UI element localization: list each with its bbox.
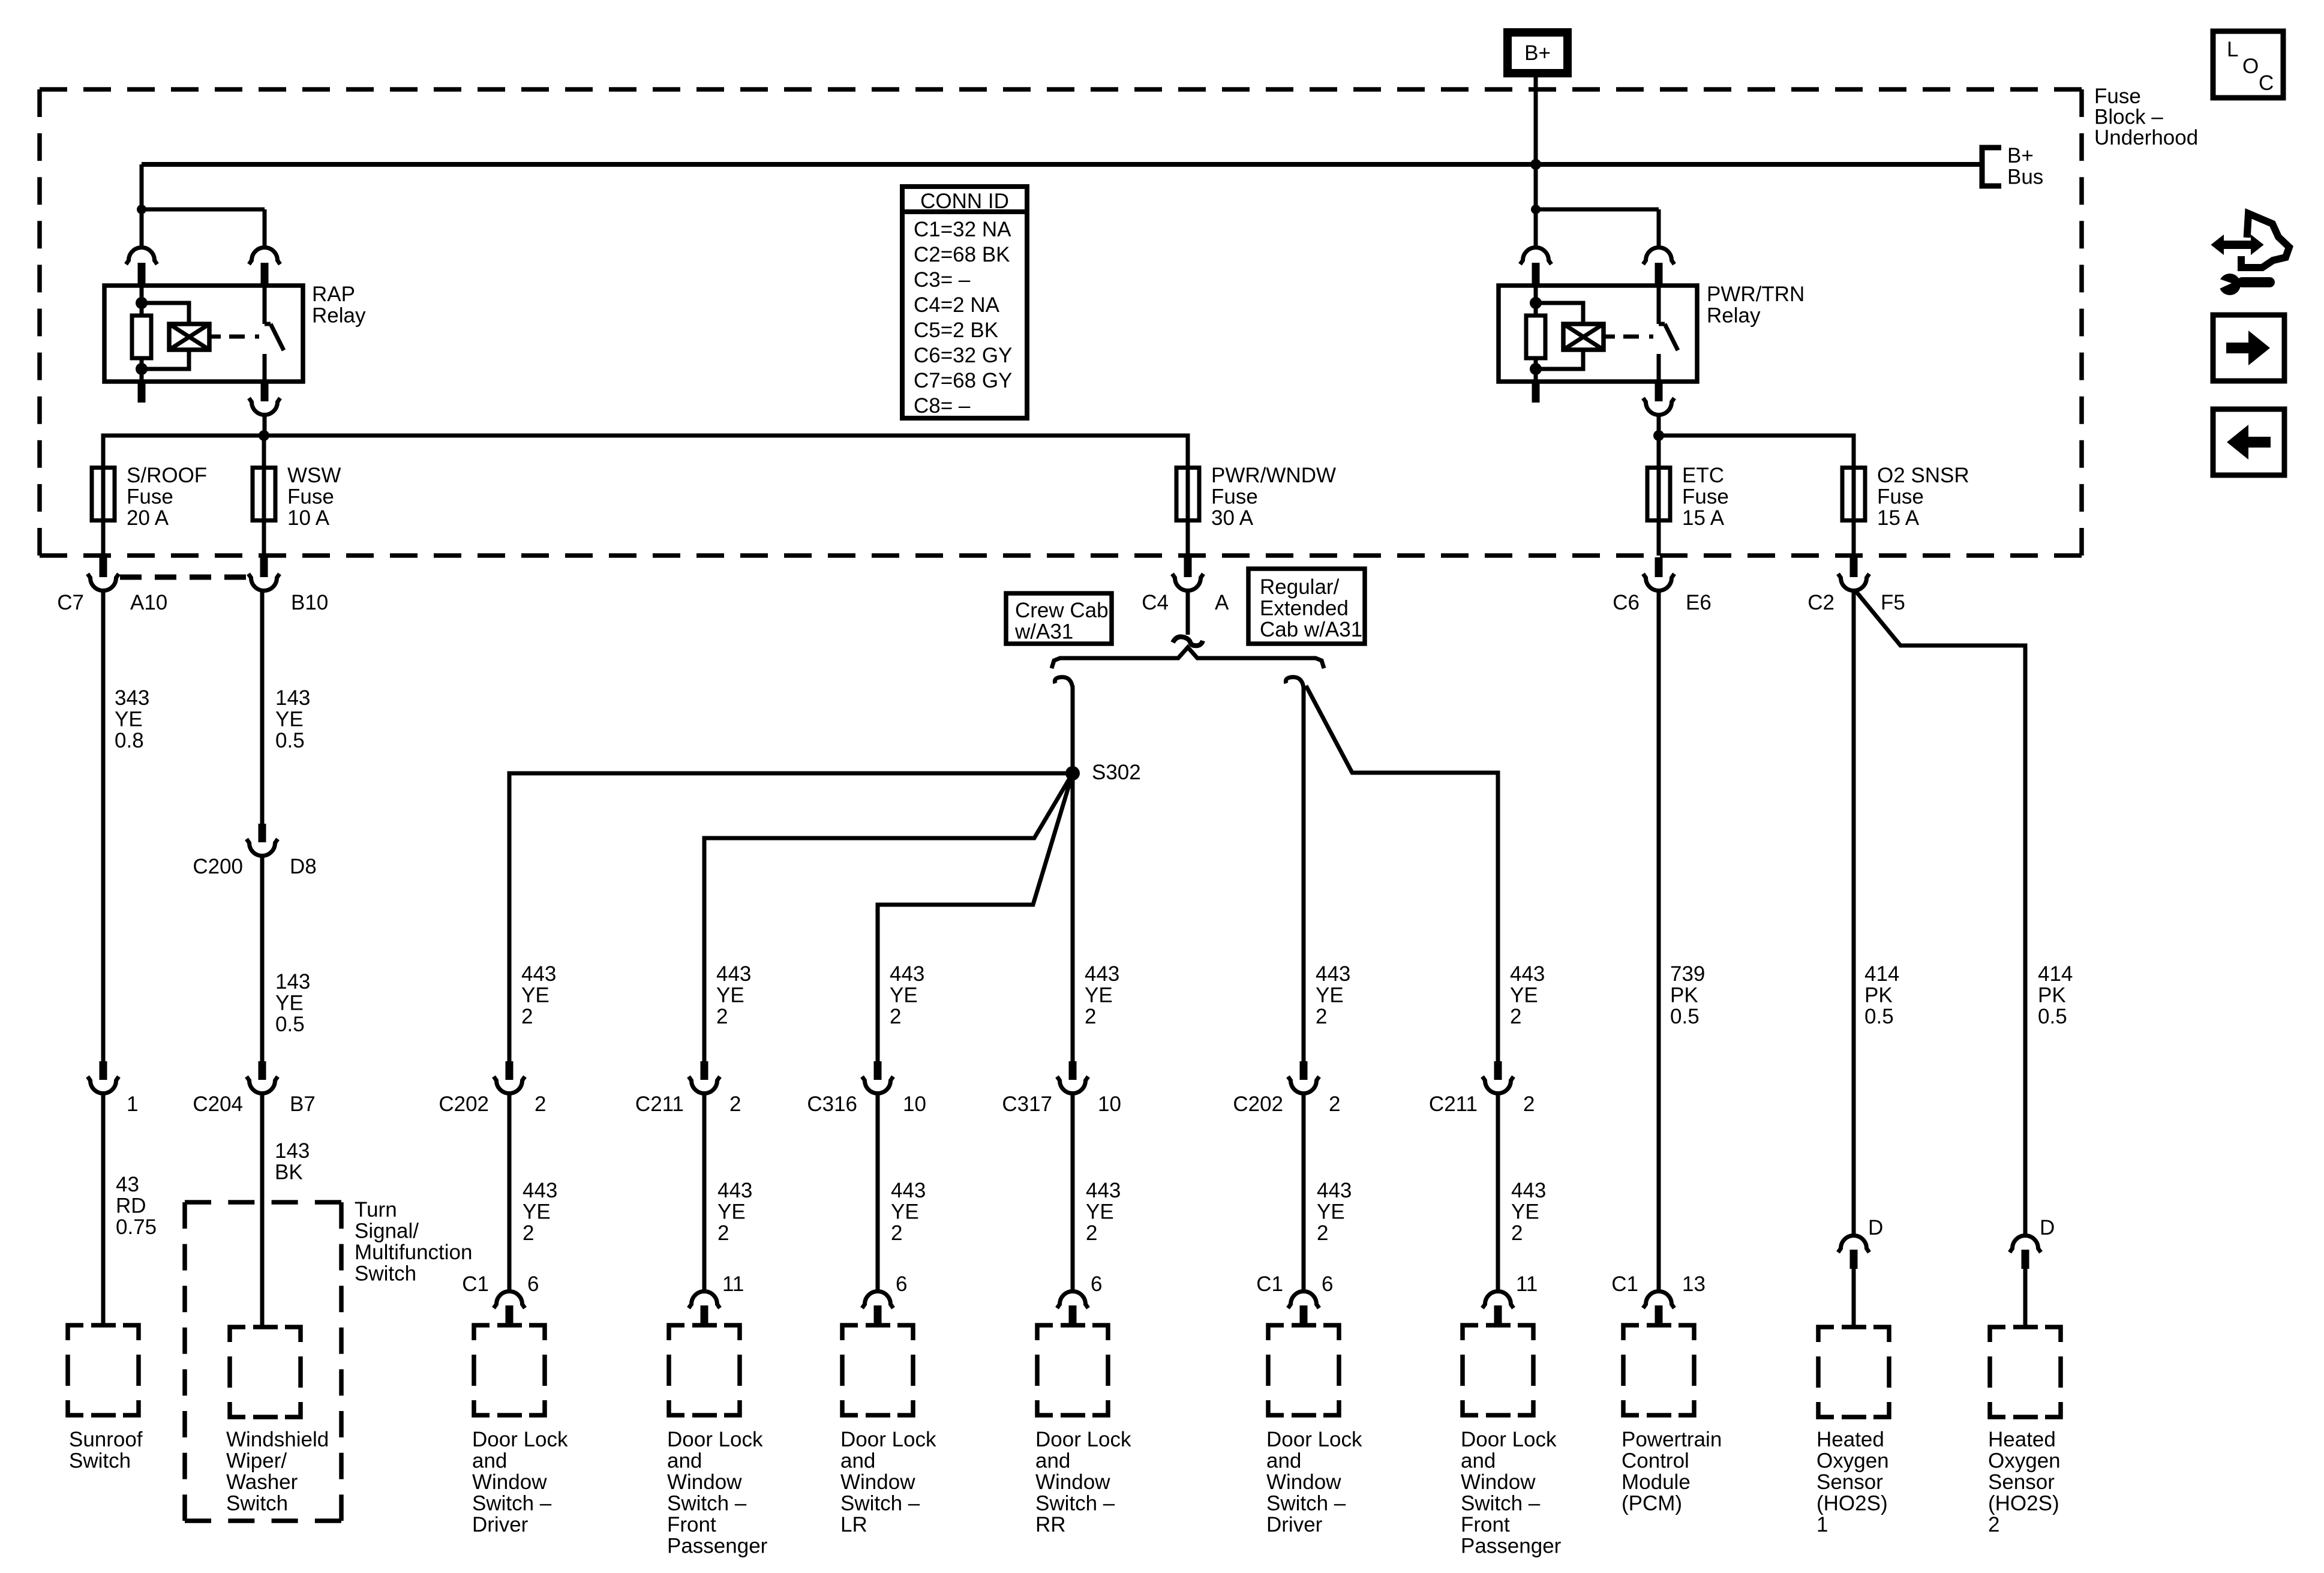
svg-text:D: D (2040, 1216, 2055, 1239)
svg-text:Switch: Switch (355, 1262, 416, 1286)
svg-text:Bus: Bus (2007, 166, 2043, 189)
svg-text:Fuse: Fuse (2094, 85, 2141, 108)
label Regular/Extended Cab w/A31 (1248, 569, 1365, 644)
svg-text:Washer: Washer (226, 1470, 298, 1494)
svg-text:Crew Cab: Crew Cab (1015, 599, 1109, 622)
svg-text:Window: Window (1461, 1470, 1536, 1494)
svg-text:C211: C211 (635, 1092, 684, 1116)
svg-text:B7: B7 (290, 1092, 316, 1116)
svg-text:RR: RR (1035, 1513, 1066, 1536)
svg-text:C2=68 BK: C2=68 BK (914, 243, 1010, 266)
svg-text:Door Lock: Door Lock (667, 1428, 763, 1451)
svg-text:30 A: 30 A (1211, 506, 1254, 530)
svg-text:E6: E6 (1686, 591, 1712, 614)
svg-text:YE: YE (716, 984, 744, 1007)
svg-text:YE: YE (717, 1200, 746, 1224)
svg-text:143: 143 (275, 686, 310, 710)
svg-text:YE: YE (523, 1200, 551, 1224)
connector C1 pin 13 at PCM (1643, 1292, 1674, 1308)
svg-text:B+: B+ (1524, 41, 1551, 65)
svg-text:Fuse: Fuse (1682, 485, 1729, 509)
svg-text:Window: Window (667, 1470, 742, 1494)
svg-text:PWR/TRN: PWR/TRN (1707, 283, 1804, 306)
svg-text:Fuse: Fuse (287, 485, 334, 509)
connector pin 6 at switch (862, 1292, 893, 1308)
connector C211 pin 2 (1494, 1061, 1502, 1080)
svg-text:Switch –: Switch – (667, 1492, 747, 1515)
svg-text:C6=32 GY: C6=32 GY (914, 344, 1012, 367)
svg-text:Cab w/A31: Cab w/A31 (1260, 618, 1362, 641)
svg-text:43: 43 (116, 1173, 139, 1196)
svg-text:Passenger: Passenger (1461, 1535, 1562, 1558)
svg-text:6: 6 (896, 1272, 907, 1296)
component Sunroof Switch box (68, 1325, 139, 1415)
component Door Lock and Window Switch - Driver (1268, 1325, 1339, 1415)
svg-text:Multifunction: Multifunction (355, 1241, 472, 1264)
svg-text:13: 13 (1682, 1272, 1706, 1296)
svg-text:F5: F5 (1881, 591, 1905, 614)
wire 414 PK branch to HO2S 2 (1856, 592, 2025, 1236)
svg-text:10: 10 (1098, 1092, 1121, 1116)
svg-text:0.5: 0.5 (275, 1013, 305, 1036)
svg-text:Control: Control (1622, 1449, 1689, 1473)
svg-text:C: C (2259, 71, 2274, 95)
node S302 splice (1065, 766, 1080, 781)
svg-text:A: A (1215, 591, 1229, 614)
connector C7 A10 at fuse block exit (100, 557, 107, 577)
svg-text:Oxygen: Oxygen (1816, 1449, 1889, 1473)
svg-text:Fuse: Fuse (1211, 485, 1258, 509)
svg-text:YE: YE (1510, 984, 1538, 1007)
svg-text:and: and (472, 1449, 507, 1473)
connector D at HO2S (2010, 1236, 2041, 1253)
CONN ID table box (902, 187, 1027, 418)
svg-text:2: 2 (1085, 1005, 1096, 1028)
svg-text:11: 11 (722, 1272, 744, 1296)
svg-text:2: 2 (1511, 1221, 1523, 1245)
svg-text:Oxygen: Oxygen (1988, 1449, 2061, 1473)
svg-text:2: 2 (1523, 1092, 1535, 1116)
component Turn Signal/Multifunction Switch dashed box (185, 1202, 341, 1521)
svg-text:Heated: Heated (1816, 1428, 1884, 1451)
component Heated Oxygen Sensor (HO2S) 1 (1818, 1327, 1889, 1417)
svg-text:Window: Window (1266, 1470, 1341, 1494)
svg-text:(HO2S): (HO2S) (1988, 1492, 2059, 1515)
wire 443 YE from C316 to switch (876, 1093, 880, 1292)
svg-text:Front: Front (1461, 1513, 1510, 1536)
svg-text:414: 414 (2038, 962, 2073, 986)
service icon wrench (2216, 274, 2275, 295)
Fuse Block - Underhood dashed box (40, 89, 2082, 556)
svg-text:2: 2 (1086, 1221, 1097, 1245)
svg-text:Powertrain: Powertrain (1622, 1428, 1722, 1451)
component Door Lock and Window Switch - Driver (474, 1325, 545, 1415)
wire B+ box to bus (1534, 77, 1538, 209)
wire 143 YE upper (260, 590, 265, 824)
svg-text:(HO2S): (HO2S) (1816, 1492, 1888, 1515)
svg-text:PK: PK (2038, 984, 2066, 1007)
svg-text:and: and (1461, 1449, 1496, 1473)
svg-text:Relay: Relay (1707, 304, 1761, 328)
svg-text:and: and (1266, 1449, 1301, 1473)
relay PWR/TRN relay K2 (1499, 205, 1697, 436)
svg-text:D8: D8 (290, 855, 317, 878)
svg-text:C317: C317 (1002, 1092, 1052, 1116)
component Powertrain Control Module (PCM) (1623, 1325, 1694, 1415)
connector pin 11 at switch (689, 1292, 720, 1308)
svg-text:6: 6 (1091, 1272, 1102, 1296)
svg-text:C1: C1 (462, 1272, 489, 1296)
connector C2 F5 at fuse block exit (1850, 557, 1858, 577)
svg-text:Underhood: Underhood (2094, 126, 2198, 149)
fuse O2 SNSR 15 A (1852, 467, 1856, 521)
svg-text:YE: YE (890, 984, 918, 1007)
svg-text:2: 2 (891, 1221, 902, 1245)
wire fuse bus right (PWR/TRN output to fuses) (1659, 436, 1854, 467)
svg-text:ETC: ETC (1682, 464, 1724, 487)
svg-text:443: 443 (523, 1179, 557, 1202)
connector C6 E6 at fuse block exit (1655, 557, 1663, 577)
svg-text:C316: C316 (807, 1092, 857, 1116)
svg-text:2: 2 (521, 1005, 533, 1028)
svg-text:0.5: 0.5 (1864, 1005, 1894, 1028)
svg-text:443: 443 (1317, 1179, 1352, 1202)
svg-text:Turn: Turn (355, 1198, 397, 1221)
wire fuse bus left (RAP output to fuses) (103, 436, 1188, 467)
svg-text:443: 443 (890, 962, 924, 986)
B+ Bus terminal bracket (1982, 148, 2001, 186)
service icon double arrow (2212, 236, 2263, 254)
svg-text:WSW: WSW (287, 464, 341, 487)
svg-text:A10: A10 (130, 591, 167, 614)
svg-text:Signal/: Signal/ (355, 1220, 419, 1243)
svg-text:Switch –: Switch – (1461, 1492, 1541, 1515)
wire 739 PK to PCM (1657, 590, 1661, 1292)
wire crew cab branch down to S302 (1071, 686, 1075, 773)
svg-text:YE: YE (1085, 984, 1113, 1007)
fuse PWR/WNDW 30 A (1186, 467, 1190, 521)
fuse ETC 15 A (1657, 467, 1661, 521)
wire 443 YE from C211 to switch (1496, 1093, 1500, 1292)
wire regular cab branch down (1302, 686, 1306, 1061)
svg-text:2: 2 (535, 1092, 546, 1116)
wire B+ bus (142, 162, 1981, 167)
svg-text:C1: C1 (1611, 1272, 1638, 1296)
svg-text:O2 SNSR: O2 SNSR (1877, 464, 1969, 487)
svg-text:Sensor: Sensor (1816, 1470, 1883, 1494)
svg-text:Sunroof: Sunroof (69, 1428, 143, 1451)
svg-text:YE: YE (891, 1200, 919, 1224)
connector C4 A at fuse block exit (1184, 557, 1192, 577)
connector pin 11 at switch (1482, 1292, 1514, 1308)
wire hook crew cab branch (1055, 677, 1073, 688)
svg-text:443: 443 (891, 1179, 926, 1202)
svg-text:Window: Window (840, 1470, 915, 1494)
service icon (vehicle outline with arrow and wrench) (2241, 214, 2289, 268)
svg-text:Switch –: Switch – (840, 1492, 920, 1515)
svg-text:143: 143 (275, 970, 310, 993)
B+ battery feed box (1508, 32, 1568, 73)
svg-text:Passenger: Passenger (667, 1535, 768, 1558)
LOC navigation box (2213, 31, 2283, 98)
svg-text:Extended: Extended (1260, 597, 1349, 620)
wire 43 RD to sunroof switch (101, 1093, 106, 1325)
svg-text:Relay: Relay (312, 304, 366, 328)
wire S302 to C202 (driver) (509, 773, 1073, 1061)
svg-text:C202: C202 (1233, 1092, 1283, 1116)
svg-text:Regular/: Regular/ (1260, 575, 1340, 599)
svg-text:443: 443 (1511, 1179, 1546, 1202)
svg-text:2: 2 (729, 1092, 741, 1116)
component Windshield Wiper/Washer Switch box (230, 1327, 301, 1417)
svg-text:2: 2 (717, 1221, 729, 1245)
svg-text:15 A: 15 A (1682, 506, 1725, 530)
svg-text:C204: C204 (193, 1092, 243, 1116)
svg-text:and: and (1035, 1449, 1070, 1473)
svg-text:Switch –: Switch – (1266, 1492, 1346, 1515)
svg-text:YE: YE (275, 992, 304, 1015)
wire S302 down to C317 (RR) (1071, 773, 1075, 1061)
node B+ bus / PWR-TRN feed (1530, 159, 1541, 170)
svg-text:YE: YE (1511, 1200, 1539, 1224)
svg-text:Driver: Driver (472, 1513, 529, 1536)
connector bridge dashes C7 A10-B10 (120, 575, 248, 580)
svg-text:343: 343 (115, 686, 149, 710)
wire 343 YE to sunroof switch (101, 590, 106, 1061)
wire 143 YE lower (260, 855, 265, 1061)
svg-text:YE: YE (521, 984, 550, 1007)
svg-text:1: 1 (127, 1092, 138, 1116)
svg-text:443: 443 (1085, 962, 1119, 986)
svg-text:0.75: 0.75 (116, 1215, 157, 1239)
label Crew Cab w/A31 (1006, 593, 1112, 644)
svg-text:Switch: Switch (69, 1449, 131, 1473)
connector C211 pin 2 (701, 1061, 708, 1080)
connector C1 pin 6 at switch (1288, 1292, 1319, 1308)
wire 443 YE from C202 to switch (508, 1093, 512, 1292)
svg-text:Switch: Switch (226, 1492, 288, 1515)
svg-text:C2: C2 (1807, 591, 1834, 614)
svg-text:PK: PK (1670, 984, 1698, 1007)
svg-text:PK: PK (1864, 984, 1893, 1007)
navigation right arrow box (2213, 315, 2284, 381)
svg-text:Block –: Block – (2094, 106, 2163, 129)
svg-text:Door Lock: Door Lock (472, 1428, 568, 1451)
component Door Lock and Window Switch - Front Passenger (669, 1325, 740, 1415)
connector C204 B7 (259, 1061, 266, 1080)
svg-text:C8= –: C8= – (914, 394, 971, 418)
svg-text:443: 443 (1086, 1179, 1121, 1202)
svg-text:Driver: Driver (1266, 1513, 1323, 1536)
svg-text:Door Lock: Door Lock (1461, 1428, 1557, 1451)
svg-text:2: 2 (1316, 1005, 1327, 1028)
svg-text:C202: C202 (439, 1092, 489, 1116)
svg-text:LR: LR (840, 1513, 867, 1536)
wire S302 diagonal to C316 (LR) (878, 773, 1073, 1061)
connector C316 pin 10 (874, 1061, 882, 1080)
svg-text:YE: YE (115, 708, 143, 731)
svg-text:BK: BK (275, 1161, 303, 1184)
svg-text:C4=2 NA: C4=2 NA (914, 293, 1000, 317)
wire RAP feed from B+ bus (140, 164, 144, 209)
svg-text:and: and (667, 1449, 702, 1473)
svg-text:C3= –: C3= – (914, 268, 971, 292)
svg-text:6: 6 (527, 1272, 539, 1296)
svg-text:Door Lock: Door Lock (1266, 1428, 1362, 1451)
relay RAP relay K1 (104, 205, 303, 436)
svg-text:443: 443 (716, 962, 751, 986)
svg-text:C200: C200 (193, 855, 243, 878)
component Door Lock and Window Switch - LR (842, 1325, 913, 1415)
connector C200 D8 (259, 824, 266, 842)
connector C317 pin 10 (1069, 1061, 1077, 1080)
wire break symbol at C4 (1173, 637, 1203, 646)
svg-text:Switch –: Switch – (1035, 1492, 1115, 1515)
connector C202 pin 2 (1300, 1061, 1308, 1080)
svg-text:0.5: 0.5 (1670, 1005, 1700, 1028)
svg-text:Module: Module (1622, 1470, 1691, 1494)
svg-text:YE: YE (1086, 1200, 1114, 1224)
svg-text:YE: YE (275, 708, 304, 731)
svg-text:Sensor: Sensor (1988, 1470, 2055, 1494)
svg-text:Window: Window (1035, 1470, 1110, 1494)
svg-text:O: O (2242, 55, 2259, 78)
connector pin 1 (sunroof switch) (100, 1061, 107, 1080)
svg-text:443: 443 (521, 962, 556, 986)
svg-text:PWR/WNDW: PWR/WNDW (1211, 464, 1336, 487)
svg-text:20 A: 20 A (127, 506, 169, 530)
svg-text:C1: C1 (1256, 1272, 1283, 1296)
svg-text:B+: B+ (2007, 144, 2034, 167)
svg-text:w/A31: w/A31 (1014, 620, 1073, 644)
svg-text:443: 443 (1316, 962, 1350, 986)
svg-text:CONN ID: CONN ID (920, 190, 1009, 213)
navigation left arrow box (2213, 409, 2284, 475)
component Heated Oxygen Sensor (HO2S) 2 (1990, 1327, 2061, 1417)
wire S302 diagonal to C211 (front passenger) (704, 773, 1073, 1061)
svg-text:RD: RD (116, 1194, 146, 1218)
svg-text:Front: Front (667, 1513, 716, 1536)
connector B10 at fuse block exit (260, 557, 268, 577)
wire 414 PK to HO2S 1 (1852, 590, 1856, 1236)
component Door Lock and Window Switch - RR (1037, 1325, 1108, 1415)
component Door Lock and Window Switch - Front Passenger (1463, 1325, 1533, 1415)
svg-text:Heated: Heated (1988, 1428, 2056, 1451)
svg-text:C4: C4 (1142, 591, 1169, 614)
svg-text:S/ROOF: S/ROOF (127, 464, 207, 487)
wire PWR/WNDW fuse output (1186, 590, 1190, 635)
svg-text:739: 739 (1670, 962, 1705, 986)
svg-text:0.8: 0.8 (115, 729, 144, 752)
svg-text:Wiper/: Wiper/ (226, 1449, 287, 1473)
svg-text:2: 2 (1988, 1513, 1999, 1536)
connector pin 6 at switch (1057, 1292, 1088, 1308)
svg-text:2: 2 (1510, 1005, 1521, 1028)
svg-text:143: 143 (275, 1139, 310, 1163)
wire 443 YE from C317 to switch (1071, 1093, 1075, 1292)
svg-text:6: 6 (1322, 1272, 1333, 1296)
svg-text:Door Lock: Door Lock (840, 1428, 936, 1451)
connector C202 pin 2 (506, 1061, 514, 1080)
svg-text:Door Lock: Door Lock (1035, 1428, 1131, 1451)
fuse S/ROOF 20 A (101, 467, 106, 521)
svg-text:YE: YE (1316, 984, 1344, 1007)
svg-text:C6: C6 (1613, 591, 1640, 614)
svg-text:443: 443 (1510, 962, 1545, 986)
svg-text:YE: YE (1317, 1200, 1345, 1224)
svg-text:C7=68 GY: C7=68 GY (914, 369, 1012, 392)
svg-text:C211: C211 (1429, 1092, 1478, 1116)
svg-text:15 A: 15 A (1877, 506, 1920, 530)
svg-text:Fuse: Fuse (1877, 485, 1924, 509)
svg-text:S302: S302 (1092, 761, 1141, 784)
svg-text:443: 443 (717, 1179, 752, 1202)
svg-text:Switch –: Switch – (472, 1492, 552, 1515)
svg-text:L: L (2227, 38, 2238, 61)
node WSW/RAP junction (259, 430, 269, 441)
wire 443 YE from C202 to switch (1302, 1093, 1306, 1292)
svg-text:11: 11 (1516, 1272, 1538, 1296)
svg-text:2: 2 (1329, 1092, 1340, 1116)
node ETC/PWR-TRN junction (1653, 430, 1664, 441)
svg-text:414: 414 (1864, 962, 1899, 986)
svg-text:2: 2 (523, 1221, 534, 1245)
svg-text:C7: C7 (57, 591, 84, 614)
svg-text:1: 1 (1816, 1513, 1828, 1536)
wire regular cab diagonal to C211 branch (1306, 686, 1498, 1061)
wire 143 BK to windshield wiper switch (260, 1093, 265, 1327)
wire hook regular cab branch (1286, 677, 1304, 688)
svg-text:0.5: 0.5 (275, 729, 305, 752)
svg-text:(PCM): (PCM) (1622, 1492, 1682, 1515)
svg-text:2: 2 (716, 1005, 728, 1028)
svg-text:2: 2 (1317, 1221, 1328, 1245)
svg-text:B10: B10 (291, 591, 328, 614)
wire 443 YE from C211 to switch (702, 1093, 707, 1292)
svg-text:0.5: 0.5 (2038, 1005, 2067, 1028)
svg-text:Window: Window (472, 1470, 547, 1494)
connector D at HO2S (1838, 1236, 1869, 1253)
svg-text:C1=32 NA: C1=32 NA (914, 218, 1011, 241)
svg-text:D: D (1868, 1216, 1883, 1239)
svg-text:2: 2 (890, 1005, 901, 1028)
svg-text:10: 10 (903, 1092, 926, 1116)
svg-text:Fuse: Fuse (127, 485, 173, 509)
svg-text:and: and (840, 1449, 875, 1473)
svg-text:C5=2 BK: C5=2 BK (914, 319, 998, 342)
connector C1 pin 6 at switch (494, 1292, 525, 1308)
svg-text:Windshield: Windshield (226, 1428, 329, 1451)
fuse WSW 10 A (262, 467, 266, 521)
brace option split under C4 (1052, 647, 1324, 668)
svg-text:RAP: RAP (312, 283, 355, 306)
svg-text:10 A: 10 A (287, 506, 330, 530)
